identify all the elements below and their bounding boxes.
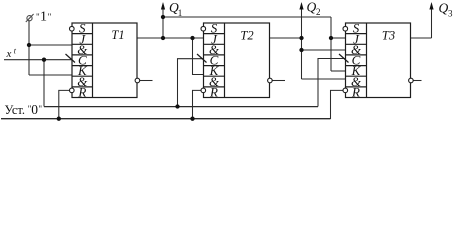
- flip-flop T3: [339, 21, 413, 100]
- wire: clock up to T3 C input: [318, 59, 346, 107]
- wire: Q1 arrow vertical: [162, 4, 164, 39]
- svg-text:t: t: [14, 47, 17, 56]
- S bubble T3: [343, 26, 348, 31]
- column divider T3: [366, 23, 368, 98]
- R bubble T1: [70, 88, 75, 93]
- junction Q2 wire / arrow vertical: [299, 36, 303, 40]
- R bubble T3: [343, 88, 348, 93]
- svg-text:3: 3: [448, 9, 453, 19]
- wire: clock branch down: [43, 60, 45, 107]
- svg-text:2: 2: [316, 7, 321, 17]
- svg-text:1: 1: [40, 10, 47, 25]
- wire: Q1 down to T3: [330, 17, 332, 71]
- wire: x^t input line: [4, 59, 72, 61]
- inverse output bubble T2: [268, 78, 273, 83]
- block outline T2: [204, 23, 270, 98]
- junction Q1 vertical / long top run: [161, 15, 165, 19]
- row dividers T2: [204, 34, 225, 87]
- wire: J-AND input of T1: [29, 44, 72, 46]
- svg-text:Q: Q: [307, 0, 317, 15]
- flip-flop T2: [197, 21, 272, 100]
- junction on "1" line at J-AND wire: [27, 43, 31, 47]
- wire: T1 R input to bus: [59, 90, 72, 119]
- wire: Q3 output: [411, 37, 432, 39]
- junction reset bus / T2 R branch: [190, 117, 194, 121]
- wire: T3 K input: [331, 70, 346, 72]
- junction Q1 drop / T3 J wire: [329, 36, 333, 40]
- wire: T2 inverse output stub: [270, 80, 286, 82]
- svg-text:": ": [38, 104, 42, 114]
- inverse output bubble T1: [135, 78, 140, 83]
- wire: T3 R input to bus: [331, 90, 346, 119]
- row dividers T3: [346, 34, 367, 87]
- constant "1" slash: [26, 14, 34, 22]
- flip-flop T1: [66, 21, 140, 100]
- svg-text:T1: T1: [111, 28, 124, 42]
- junction Q1 wire / T2 K-AND branch: [190, 36, 194, 40]
- svg-text:T3: T3: [382, 29, 395, 43]
- wire: "1" vertical down: [28, 21, 30, 76]
- arrowhead Q3: [429, 2, 433, 10]
- arrowheads: [161, 2, 434, 10]
- junction Q2 vertical / T3 J-AND wire: [299, 48, 303, 52]
- svg-text:R: R: [351, 85, 360, 100]
- wire: T3 J input: [331, 37, 346, 39]
- wire: Q3 arrow vertical: [431, 4, 433, 39]
- wire: Q1 long top run: [163, 16, 331, 18]
- row dividers T1: [72, 34, 93, 87]
- inverse output bubble T3: [409, 78, 414, 83]
- wire: K-AND input of T1: [29, 74, 72, 76]
- svg-text:Q: Q: [439, 1, 449, 16]
- column divider T2: [224, 23, 226, 98]
- block outline T1: [72, 23, 137, 98]
- wire: Q2 arrow vertical and branch down: [301, 4, 303, 80]
- junction clock run / T2 C branch: [175, 104, 179, 108]
- svg-text:R: R: [209, 85, 218, 100]
- wire: T3 K-AND lower input: [302, 78, 346, 80]
- svg-text:Уст.: Уст.: [5, 103, 26, 117]
- wire: T1 inverse output stub: [137, 80, 153, 82]
- svg-text:R: R: [77, 85, 86, 100]
- wire: clock bottom run: [44, 106, 318, 108]
- svg-text:T2: T2: [240, 29, 253, 43]
- C dynamic slash T1: [66, 54, 76, 63]
- C dynamic slash T2: [197, 54, 207, 63]
- wire: Q1 down to T2 K-AND: [193, 38, 204, 75]
- wire: T3 J-AND input: [302, 49, 346, 51]
- constant "1" source symbol: [27, 16, 32, 21]
- junction on x^t line at clock branch: [42, 58, 46, 62]
- wire: Q2 output run: [270, 37, 302, 39]
- wire: clock up to T2 C input: [178, 59, 204, 107]
- svg-text:1: 1: [178, 8, 183, 18]
- svg-text:0: 0: [31, 102, 38, 117]
- svg-text:x: x: [6, 48, 12, 60]
- svg-text:": ": [48, 12, 52, 22]
- wire: Q1 output run to T2 J: [137, 37, 204, 39]
- R bubble T2: [201, 88, 206, 93]
- C dynamic slash T3: [339, 54, 349, 63]
- arrowhead Q1: [161, 2, 165, 10]
- block outline T3: [346, 23, 411, 98]
- S bubble T1: [70, 26, 75, 31]
- junction Q1 wire / arrow vertical: [161, 36, 165, 40]
- wire: T2 R input to bus: [193, 90, 204, 119]
- junction reset bus / T1 R branch: [57, 117, 61, 121]
- arrowhead Q2: [299, 2, 303, 10]
- wire: reset bus: [1, 118, 331, 120]
- wire: T3 inverse output stub: [411, 80, 422, 82]
- S bubble T2: [201, 26, 206, 31]
- column divider T1: [92, 23, 94, 98]
